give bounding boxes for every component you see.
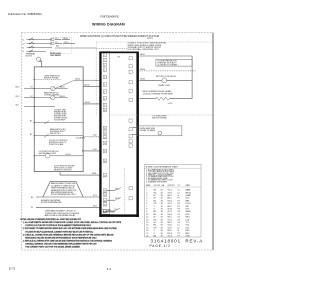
svg-text:120VAC 3.6W: 120VAC 3.6W — [158, 84, 170, 87]
svg-text:12: 12 — [104, 133, 106, 135]
svg-text:Publication No: 098653094: Publication No: 098653094 — [8, 12, 42, 16]
svg-text:13.1A 16.9 OHMS AT ROOM TEMP: 13.1A 16.9 OHMS AT ROOM TEMP — [143, 92, 174, 95]
wire to connector GY-41 — [82, 149, 99, 152]
oven lamp symbol — [158, 131, 162, 135]
svg-text:AND DOUBLE LINE BREAK RELAY: AND DOUBLE LINE BREAK RELAY — [45, 214, 76, 217]
wire left entry row 2 — [16, 96, 35, 98]
svg-text:2. DISCONNECT POWER BEFORE SER: 2. DISCONNECT POWER BEFORE SERVICING UNI… — [23, 227, 118, 230]
latch motor label bottom — [158, 84, 170, 87]
note text four lines — [128, 42, 167, 52]
svg-text:RESISTANCE VALUES SHOWN ARE AP: RESISTANCE VALUES SHOWN ARE APPROXIMATE … — [25, 236, 97, 239]
svg-text:NOTE 1: NOTE 1 — [147, 38, 153, 40]
connector left pins — [103, 53, 106, 213]
svg-text:BLOCK: BLOCK — [26, 56, 33, 58]
dashed drop wire — [124, 168, 126, 214]
wire broil to bus — [169, 98, 192, 100]
diagram border top dashed — [22, 32, 214, 34]
svg-text:1. ALL COMPONENTS SHOWN WITH O: 1. ALL COMPONENTS SHOWN WITH OVEN DOOR C… — [23, 221, 122, 224]
svg-text:17: 17 — [104, 175, 106, 177]
fuse dashed box — [51, 37, 72, 53]
svg-text:ROOM TEMP: ROOM TEMP — [54, 120, 66, 122]
broil sub label — [168, 103, 173, 105]
svg-text:BK-55: BK-55 — [60, 87, 65, 89]
svg-text:B2: B2 — [30, 134, 32, 136]
lock text left — [39, 151, 59, 155]
svg-text:316418001 REV-A: 316418001 REV-A — [151, 238, 204, 243]
svg-text:F1: F1 — [56, 38, 58, 40]
svg-text:MONITOR CIRCUITS: MONITOR CIRCUITS — [54, 170, 72, 172]
note WHEN 120V CIRCUIT text — [80, 35, 159, 38]
diagram border left dashed — [21, 33, 23, 251]
diagram border right solid — [212, 33, 214, 251]
svg-text:W-2: W-2 — [16, 105, 19, 107]
door lock switch text — [49, 140, 68, 146]
svg-text:BK-27: BK-27 — [140, 54, 145, 56]
wire control to connector OR-62 — [83, 102, 99, 104]
page label — [150, 244, 171, 248]
svg-text:RD-7: RD-7 — [65, 42, 69, 44]
dashed left boundary — [95, 42, 97, 115]
element bottom text — [45, 210, 80, 217]
dashed neutral wire — [96, 48, 127, 50]
svg-text:1BK18GY-4L1BAKE: 1BK18GY-4L1BAKE — [146, 189, 191, 192]
svg-text:14: 14 — [104, 143, 106, 145]
relay switch K1 — [31, 78, 100, 90]
control bottom text block — [54, 165, 75, 171]
notes block — [20, 218, 122, 248]
footer document code — [9, 267, 16, 271]
svg-text:18: 18 — [104, 191, 106, 193]
svg-text:6OR18GY-9P4LOCK: 6OR18GY-9P4LOCK — [146, 203, 191, 205]
legend box — [144, 164, 201, 237]
svg-text:VOLTAGE IN SELF CLEAN MODE. CA: VOLTAGE IN SELF CLEAN MODE. CABINET PART… — [25, 230, 94, 233]
thermal switch box — [156, 59, 192, 66]
switch row bake — [30, 121, 83, 125]
door lock motor M1 — [37, 53, 62, 62]
legend header rule — [144, 167, 201, 169]
svg-text:4: 4 — [104, 70, 105, 72]
broil element label — [143, 90, 174, 95]
lower connector text — [102, 209, 115, 213]
svg-text:BK-5: BK-5 — [16, 87, 20, 89]
element mid text — [41, 199, 62, 204]
door latch motor label top — [156, 75, 176, 78]
wire BK to control — [39, 60, 42, 67]
connector bottom bar — [99, 214, 139, 217]
wire row short — [34, 106, 55, 107]
svg-text:W-68: W-68 — [92, 173, 96, 175]
wire left entry row 1 — [16, 87, 35, 89]
svg-text:3: 3 — [104, 65, 105, 67]
svg-text:POSITION (CAM): POSITION (CAM) — [49, 143, 64, 146]
oven light label — [152, 116, 168, 120]
dashed top boundary — [96, 41, 213, 43]
dashed wire row — [139, 69, 196, 71]
svg-text:MOTOR DOOR LATCH: MOTOR DOOR LATCH — [156, 75, 176, 78]
svg-text:SWITCH 120VAC: SWITCH 120VAC — [152, 117, 168, 120]
svg-text:5: 5 — [104, 77, 105, 79]
relay K1 label — [44, 91, 60, 96]
lower connector wire arrows — [107, 188, 121, 191]
svg-text:ROOM TEMPERATURE: ROOM TEMPERATURE — [41, 201, 62, 204]
svg-text:W-2: W-2 — [56, 46, 59, 48]
svg-text:FOR THIS WALL OVEN MODEL ONLY: FOR THIS WALL OVEN MODEL ONLY — [128, 48, 160, 51]
svg-text:2: 2 — [104, 60, 105, 62]
wire to lamp top — [132, 127, 137, 129]
broil element resistor — [156, 97, 169, 100]
wire element second line — [31, 206, 99, 210]
bus wire vertical — [191, 56, 193, 99]
svg-text:11: 11 — [104, 128, 106, 130]
part number — [151, 238, 204, 243]
wire long to connector — [60, 172, 99, 176]
svg-text:V-20: V-20 — [93, 149, 97, 151]
svg-text:ORIGINAL HARNESS. USE ONLY REC: ORIGINAL HARNESS. USE ONLY RECOMMENDED R… — [25, 242, 97, 245]
wire dashed to connector — [76, 135, 100, 140]
svg-text:9: 9 — [104, 105, 105, 107]
svg-text:CLOSE AT 110 F RESET: CLOSE AT 110 F RESET — [157, 63, 178, 66]
bake text — [50, 128, 67, 135]
wire to lamp bottom — [132, 133, 137, 135]
svg-text:R-70: R-70 — [93, 195, 97, 197]
svg-text:BK-30: BK-30 — [140, 69, 145, 71]
wire control to connector BK-55 — [83, 85, 99, 87]
svg-text:8: 8 — [104, 98, 105, 100]
control dashed row sensor — [34, 76, 61, 81]
svg-text:B1: B1 — [30, 121, 32, 123]
svg-text:13: 13 — [104, 137, 106, 139]
svg-text:4. REPLACE ALL WIRING WITH SAM: 4. REPLACE ALL WIRING WITH SAME GAUGE AN… — [23, 239, 113, 242]
relay text column — [54, 110, 68, 122]
svg-text:3. CHECK ALL CONNECTIONS AND T: 3. CHECK ALL CONNECTIONS AND TERMINALS B… — [23, 233, 114, 236]
svg-text:SENSOR PROBE: SENSOR PROBE — [44, 78, 59, 80]
wire latch motor to bus — [167, 79, 192, 81]
svg-text:THE CURRENT PARTS LIST FOR THI: THE CURRENT PARTS LIST FOR THIS MODEL SE… — [25, 245, 80, 248]
svg-text:BK-42: BK-42 — [140, 79, 145, 81]
svg-text:F2: F2 — [56, 42, 58, 44]
oven control board box — [34, 67, 83, 172]
svg-text:20: 20 — [104, 200, 106, 202]
svg-text:A WIRE CODE INFORMATION CHART: A WIRE CODE INFORMATION CHART — [146, 165, 179, 168]
svg-text:16: 16 — [104, 161, 106, 163]
connector P1 black cap — [99, 52, 138, 54]
motor row — [34, 154, 83, 159]
wire N row — [22, 46, 96, 50]
svg-text:21: 21 — [104, 204, 106, 206]
lower connector wire 2 — [107, 197, 121, 200]
model number text — [101, 14, 119, 18]
wire to broil element — [139, 98, 156, 100]
svg-text:7: 7 — [104, 92, 105, 94]
wire GND row — [22, 50, 46, 54]
svg-text:9BR18GY-1P8SENS: 9BR18GY-1P8SENS — [146, 211, 191, 213]
svg-text:PAGE-1/2: PAGE-1/2 — [150, 244, 171, 248]
bake element text — [51, 182, 77, 196]
oven lamp box — [137, 126, 182, 136]
svg-text:BK-55: BK-55 — [85, 85, 90, 87]
svg-text:10: 10 — [104, 110, 106, 112]
svg-text:TC3 (B,BU): TC3 (B,BU) — [76, 137, 86, 139]
connector P1 left bar — [99, 52, 101, 218]
legend subheader rule — [144, 186, 201, 188]
svg-text:15: 15 — [104, 151, 106, 153]
svg-text:120VAC G9 BASE: 120VAC G9 BASE — [140, 129, 156, 132]
wire left entry row 3 — [16, 105, 35, 107]
svg-text:Y-44: Y-44 — [93, 135, 97, 137]
legend header — [146, 165, 179, 168]
svg-text:W: W — [31, 207, 33, 209]
dashed boundary line — [110, 114, 213, 116]
svg-text:3W18BU-2NLAMP: 3W18BU-2NLAMP — [146, 194, 191, 197]
svg-text:BK-8: BK-8 — [64, 38, 68, 40]
wire to thermal switch — [139, 54, 192, 56]
diagram border bottom dashed — [22, 249, 214, 251]
svg-text:ROOM TEMPERATURE ONLY: ROOM TEMPERATURE ONLY — [51, 193, 77, 196]
legend table rows — [146, 189, 191, 238]
svg-text:CONTACT 240VAC: CONTACT 240VAC — [44, 93, 60, 96]
connector right pins — [129, 57, 132, 200]
svg-text:8. W MEANS WHITE WIRE: 8. W MEANS WHITE WIRE — [146, 180, 168, 183]
svg-text:19: 19 — [104, 195, 106, 197]
svg-text:BK-55: BK-55 — [76, 78, 81, 80]
svg-text:NOTES UNLESS OTHERWISE SPECIFI: NOTES UNLESS OTHERWISE SPECIFIED: ALL SW… — [20, 218, 82, 221]
svg-text:WIRING DIAGRAM: WIRING DIAGRAM — [92, 22, 125, 26]
svg-text:CONTROLS IN THE OFF POSITION A: CONTROLS IN THE OFF POSITION AT ROOM AMB… — [25, 224, 91, 227]
connector P1 label — [118, 57, 121, 59]
svg-text:W-71: W-71 — [93, 206, 97, 208]
svg-text:OR-62: OR-62 — [85, 102, 90, 104]
svg-text:6: 6 — [104, 85, 105, 87]
svg-text:RD-7: RD-7 — [16, 96, 20, 98]
switch row broil — [30, 134, 83, 138]
svg-text:120V RATED: 120V RATED — [50, 54, 61, 57]
footer page number — [107, 267, 112, 271]
legend table header — [146, 184, 191, 187]
note A reference — [147, 38, 153, 40]
relay switch K2 — [31, 95, 68, 99]
svg-text:SEE NOTE 2: SEE NOTE 2 — [50, 133, 61, 135]
wire L2 row — [22, 42, 75, 46]
svg-text:(BOARD SIDE): (BOARD SIDE) — [102, 211, 115, 214]
svg-text:K2: K2 — [31, 96, 33, 98]
connector pin numbers — [104, 55, 106, 213]
wire to latch motor — [139, 79, 161, 81]
terminal block label — [26, 52, 36, 57]
publication number text — [8, 12, 42, 16]
bake element trapezoid — [43, 182, 83, 197]
wire element baseline — [31, 195, 99, 199]
svg-text:F08T3040KF8: F08T3040KF8 — [101, 14, 119, 18]
svg-text:BK-58: BK-58 — [60, 96, 65, 98]
svg-text:E-72: E-72 — [9, 267, 16, 271]
latch motor M2 — [162, 78, 167, 83]
wire L1 row — [22, 38, 70, 42]
title WIRING DIAGRAM — [92, 22, 125, 26]
svg-text:GY-44: GY-44 — [65, 154, 70, 156]
svg-text:L2-52: L2-52 — [168, 103, 173, 105]
svg-text:L1: L1 — [22, 40, 24, 42]
legend notes list — [146, 168, 175, 183]
svg-text:K1: K1 — [31, 87, 33, 89]
svg-text:1-2: 1-2 — [107, 267, 112, 271]
lower connector wire 3 — [107, 208, 120, 211]
connector right bar — [136, 52, 139, 218]
svg-text:1: 1 — [104, 55, 105, 57]
connector P1 strip body — [102, 52, 110, 215]
svg-text:L2: L2 — [22, 43, 24, 45]
